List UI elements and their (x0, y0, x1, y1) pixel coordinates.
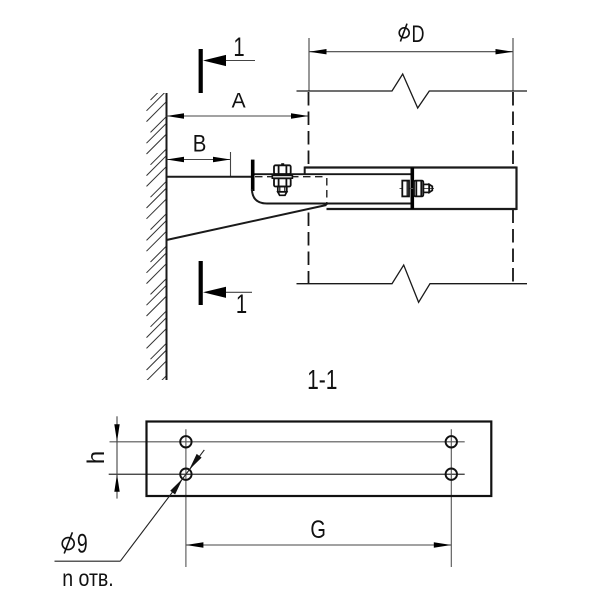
bracket gusset diagonal (167, 205, 327, 240)
horizontal bolt axis (400, 188, 435, 190)
vertical bolt shank and tip (278, 187, 287, 196)
label phi D (399, 24, 409, 42)
horizontal bolt nut (414, 181, 423, 197)
vertical bolt head (274, 165, 291, 174)
section line 1 (top) (199, 49, 203, 93)
vertical bolt nut (274, 178, 291, 186)
clamp bottom edge (327, 208, 517, 210)
vertical bolt washer (272, 175, 292, 178)
dimension G (186, 542, 451, 547)
svg-text:A: A (232, 89, 246, 112)
clamp right edge (515, 167, 517, 211)
phi-D extension lines (308, 38, 310, 91)
pipe break line top (297, 74, 528, 108)
clamp mid upper line (253, 173, 411, 175)
hole top-right (446, 436, 457, 447)
hole centerline vertical left (185, 429, 187, 567)
bracket hidden top edge (dashed) (255, 176, 327, 178)
horizontal bolt shank and tip (423, 184, 432, 192)
svg-text:D: D (412, 21, 425, 47)
clamp left flange (thick vertical) (251, 160, 255, 191)
svg-text:9: 9 (77, 528, 88, 558)
bracket top plate edge (167, 176, 252, 178)
vertical bolt stud tip above nut (281, 163, 284, 165)
clamp left step (304, 167, 306, 175)
hole diameter leader diagonal (120, 450, 204, 561)
hole bottom-left (180, 469, 191, 480)
svg-text:n отв.: n отв. (62, 566, 113, 592)
bracket hidden right edge (dashed) (326, 178, 328, 205)
horizontal bolt left washer (402, 181, 409, 197)
pipe break line bottom (297, 265, 528, 302)
dimension A (167, 113, 309, 118)
svg-text:1: 1 (233, 32, 244, 63)
svg-text:B: B (193, 130, 207, 157)
clamp mid lower line (267, 203, 411, 205)
label phi 9 (62, 532, 74, 553)
svg-text:1-1: 1-1 (307, 365, 337, 396)
section arrow top (203, 55, 255, 66)
hole centerline horizontal bottom (109, 473, 465, 475)
hole bottom-right (446, 469, 457, 480)
clamp top edge (305, 166, 517, 168)
clamp flange curve into band bottom (252, 189, 267, 204)
hole top-left (180, 436, 191, 447)
hole centerline horizontal top (110, 441, 465, 443)
section arrow bottom (203, 287, 252, 298)
dimension h line (114, 416, 119, 498)
svg-text:1: 1 (236, 289, 247, 320)
svg-text:h: h (83, 451, 110, 464)
dimension B (167, 157, 231, 162)
section line 1 (bottom) (199, 261, 203, 305)
svg-text:G: G (310, 516, 326, 544)
leader shelf (55, 560, 121, 562)
plate outline (147, 422, 492, 497)
B extension line (230, 152, 232, 177)
pipe right edge (dashed) (512, 92, 514, 284)
pipe left edge (dashed) (308, 92, 310, 284)
dimension phi-D (309, 49, 513, 54)
clamp joint (thick) (410, 168, 414, 210)
wall face (166, 93, 168, 380)
hole centerline vertical right (450, 429, 452, 567)
